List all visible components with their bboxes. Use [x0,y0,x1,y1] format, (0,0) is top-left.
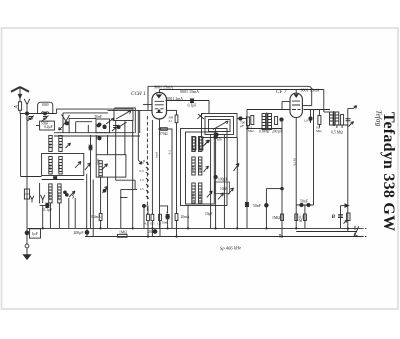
svg-text:9001 15mA: 9001 15mA [154,84,173,89]
svg-text:50nF: 50nF [253,204,261,208]
svg-text:270Ω: 270Ω [159,132,168,136]
svg-text:1007: 1007 [57,163,61,170]
svg-text:µF: µF [240,124,244,128]
svg-text:5-2: 5-2 [168,150,172,155]
svg-text:MΩ: MΩ [316,129,322,133]
svg-text:CF 7: CF 7 [276,89,287,95]
svg-text:CCH 1: CCH 1 [131,91,146,97]
svg-text:100: 100 [48,143,52,148]
svg-text:100µF: 100µF [218,178,227,182]
svg-text:1nF: 1nF [217,138,223,142]
svg-text:Tefadyn 338 GW: Tefadyn 338 GW [380,112,397,231]
svg-text:1007: 1007 [48,163,52,170]
svg-text:9001 15mA: 9001 15mA [301,88,320,93]
svg-text:50nF: 50nF [26,117,33,121]
svg-text:Sp 466 kHz: Sp 466 kHz [220,245,241,251]
svg-text:17: 17 [96,137,100,141]
svg-text:100: 100 [58,143,62,148]
svg-text:20mA: 20mA [181,215,190,219]
svg-text:200 µF: 200 µF [272,130,282,134]
svg-text:1MΩ: 1MΩ [119,231,127,235]
svg-text:1000: 1000 [41,103,48,107]
svg-text:10000: 10000 [48,192,52,201]
svg-text:8011 2mA: 8011 2mA [167,97,183,101]
svg-text:9001 15mA: 9001 15mA [180,89,199,94]
svg-text:10011: 10011 [198,191,202,200]
svg-text:20: 20 [191,146,195,150]
svg-text:50nF: 50nF [162,220,169,224]
svg-text:a: a [355,103,357,108]
svg-text:10pF: 10pF [205,212,212,216]
svg-text:10pF: 10pF [220,187,227,191]
svg-text:41: 41 [169,119,173,123]
svg-text:20nF: 20nF [148,230,156,234]
svg-text:20: 20 [198,146,202,150]
svg-text:2000: 2000 [57,193,61,200]
svg-text:1007: 1007 [198,164,202,171]
svg-text:1mA: 1mA [155,151,159,158]
svg-text:8000: 8000 [191,192,195,199]
svg-text:1µF: 1µF [32,232,38,236]
svg-text:50nF: 50nF [41,121,48,125]
svg-text:A: A [14,105,20,110]
svg-text:200µF: 200µF [74,231,84,235]
svg-text:50nF: 50nF [300,200,308,204]
svg-text:220: 220 [191,166,195,171]
svg-text:1000: 1000 [96,158,100,165]
svg-text:50nF: 50nF [95,115,102,119]
svg-text:B: B [331,214,336,220]
svg-text:MΩ: MΩ [248,129,254,133]
svg-text:1MΩ: 1MΩ [272,216,280,220]
